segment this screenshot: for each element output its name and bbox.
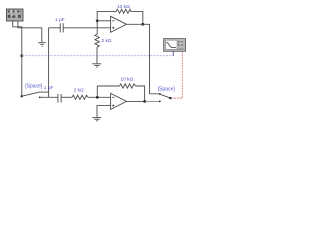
wire: lavender net to scope channel A [22,55,174,57]
svg-text:2 kΩ: 2 kΩ [74,88,84,94]
svg-text:10 kΩ: 10 kΩ [121,76,134,82]
svg-text:2 kΩ: 2 kΩ [102,38,112,44]
resistor R1 2kOhm (to ground, vertical) [95,21,99,64]
microphone/function-generator instrument icon [7,9,24,21]
ground (mic) [38,43,46,47]
wire: bottom op-amp non-inverting input to ground [97,106,111,118]
node: top op-amp inverting input [96,19,99,22]
op-amp U1 (top, non-inverting) [111,16,127,32]
oscilloscope icon XSC1 [164,39,186,52]
node: bottom op-amp inverting input [96,96,99,99]
switch J2 [Space] (output selector) [160,94,172,99]
svg-text:1 µF: 1 µF [55,17,65,23]
node: bottom op-amp output [143,100,146,103]
ground (top 2k) [92,64,101,67]
capacitor C1 1uF (top) [49,23,111,32]
ground (bottom op-amp) [92,118,101,121]
wire: vertical tap from top capacitor down to bottom row [48,28,50,98]
resistor R2 10kOhm feedback (top) [97,9,143,24]
wire: bottom row from switch to capacitor [40,96,58,98]
capacitor C2 1uF (bottom) [58,94,72,103]
svg-text:[Space]: [Space] [158,86,176,92]
wire: input node down to switch common [21,56,23,97]
node: input junction dot [20,54,23,57]
resistor R3 2kOhm (bottom series) [72,95,111,99]
wire: scope A stub [172,51,174,56]
wire: inverting input to op-amp [97,20,110,22]
wire: top output right and down to selector switch [127,24,160,94]
svg-text:10 kΩ: 10 kΩ [117,4,130,10]
resistor R4 10kOhm feedback (bottom) [97,84,144,102]
wire: bottom output to selector switch lower throw [127,100,145,102]
svg-text:[Space]: [Space] [25,84,43,90]
switch J1 [Space] (bottom left) [21,92,49,98]
op-amp U2 (bottom, inverting) [111,93,127,109]
svg-text:1 µF: 1 µF [44,85,54,91]
wire: mic right terminal to ground [18,21,42,42]
node: top op-amp output [141,23,144,26]
wire: scope channel B red wire to selector switch [171,51,183,98]
wire: mic left terminal down to input node [13,21,22,56]
